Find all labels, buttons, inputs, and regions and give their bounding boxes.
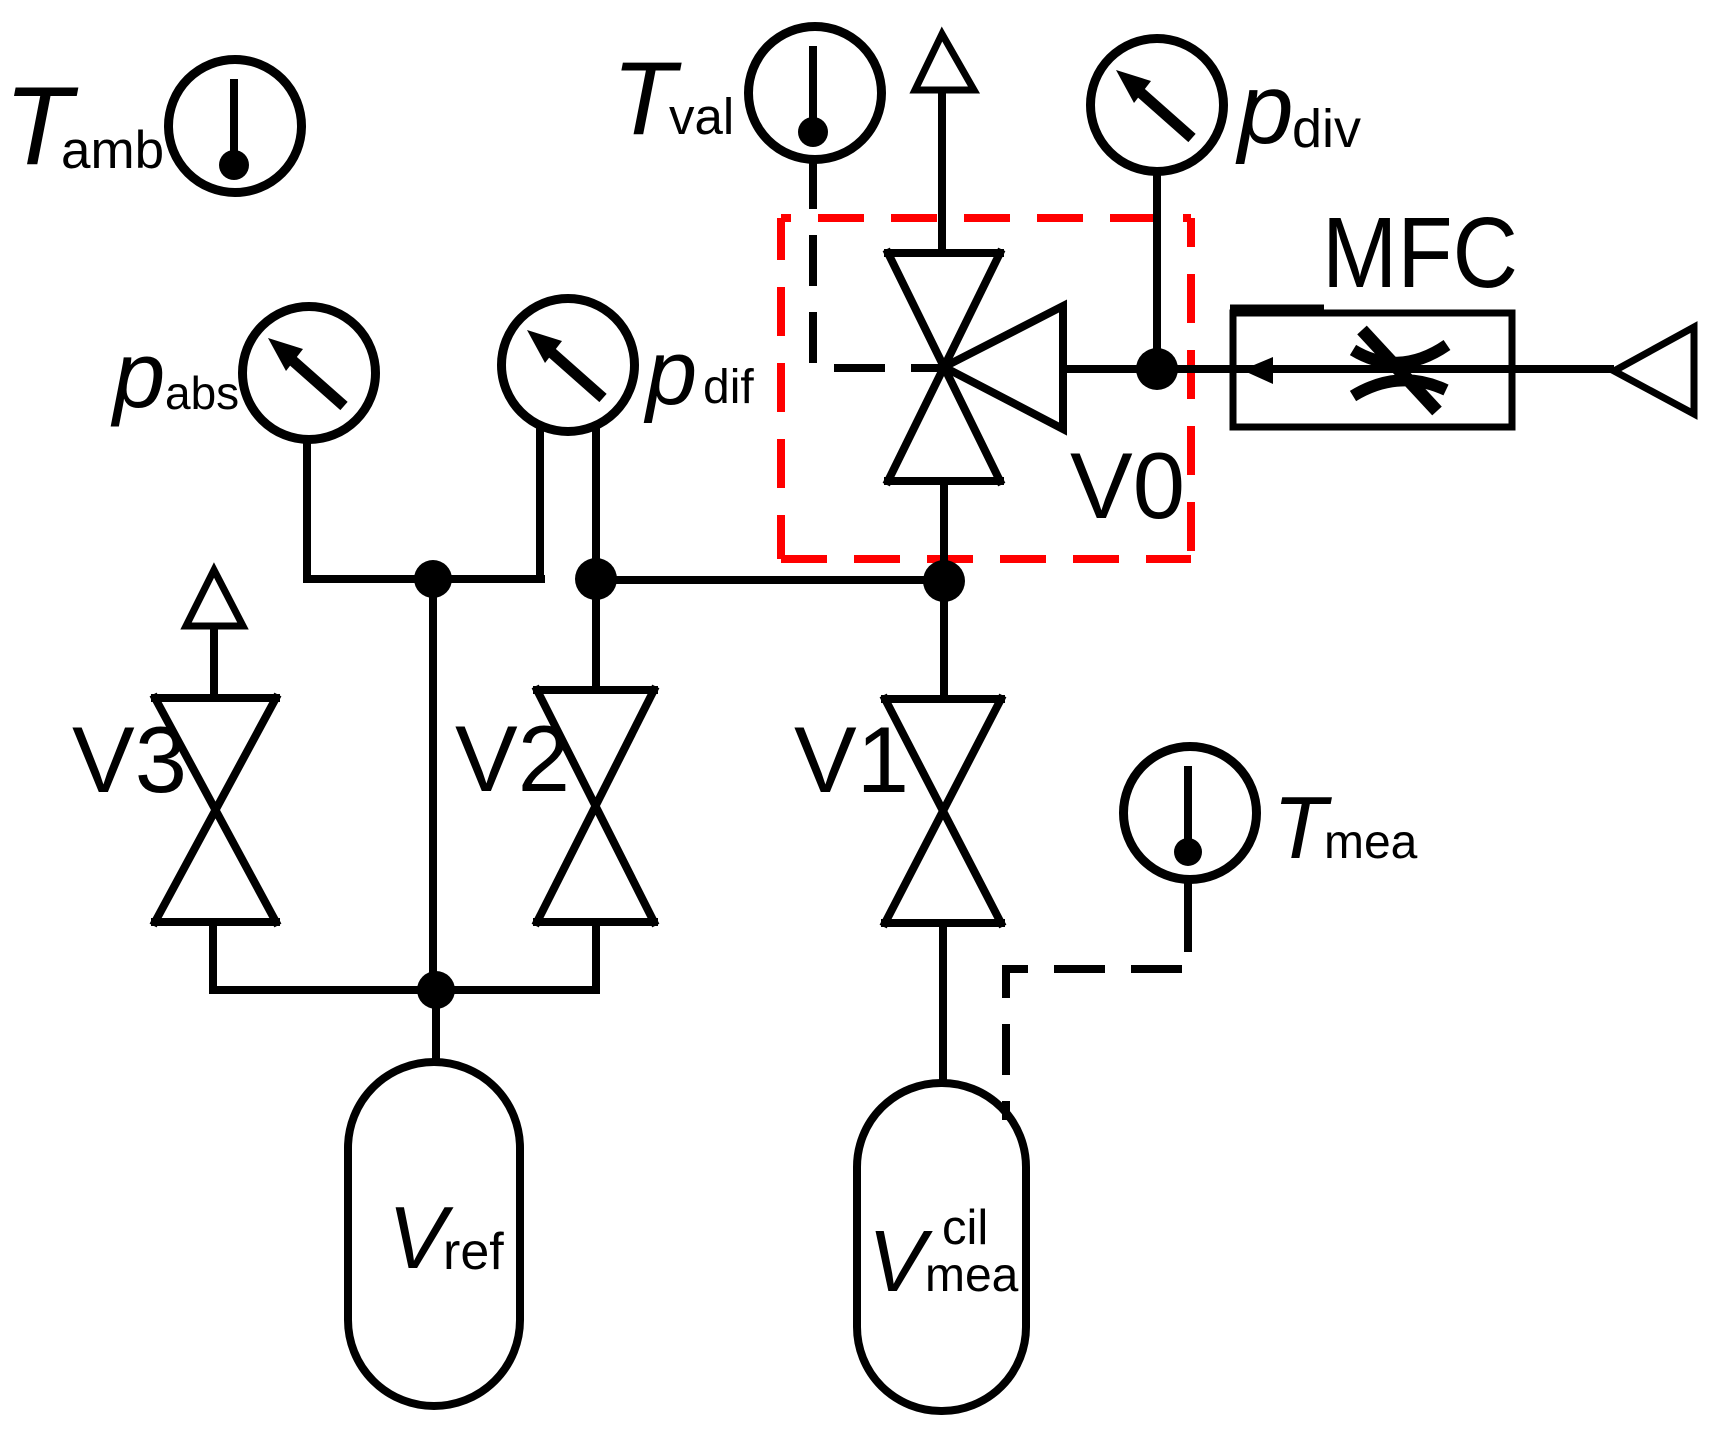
svg-text:dif: dif — [703, 361, 754, 414]
gauge p_div — [1091, 39, 1224, 172]
vent arrow above V0 — [915, 34, 974, 90]
svg-text:p: p — [1235, 53, 1294, 165]
wire: bus from p_dif node to V1 node — [596, 576, 944, 584]
wire: stub to V_ref — [432, 990, 440, 1062]
wire: lower bus — [209, 986, 600, 994]
gas inlet triangle — [1614, 327, 1694, 414]
wire: vent stem V3 — [210, 626, 218, 698]
svg-text:V: V — [868, 1213, 933, 1310]
vessel V_mea — [857, 1083, 1026, 1411]
valve V3 — [155, 698, 276, 922]
svg-text:val: val — [669, 88, 734, 145]
MFC box — [1233, 313, 1512, 427]
wire: vent stem V0 — [938, 90, 946, 253]
svg-text:V1: V1 — [794, 707, 909, 812]
label p_div — [1235, 53, 1361, 165]
gauge T_val — [749, 27, 882, 160]
red dashed enclosure box V0 — [781, 218, 1191, 559]
node p_dif/V2 — [575, 558, 617, 600]
svg-text:p: p — [110, 322, 165, 427]
label T_mea — [1273, 778, 1418, 877]
gauge T_amb — [169, 60, 302, 193]
svg-text:MFC: MFC — [1322, 197, 1518, 309]
vent arrow above V3 — [186, 570, 243, 626]
svg-text:V3: V3 — [72, 707, 187, 812]
valve V2 — [537, 690, 654, 922]
wire: p_dif right stub down to V2 — [592, 424, 600, 690]
label V_mea^cil — [868, 1201, 1019, 1310]
svg-text:mea: mea — [925, 1249, 1019, 1302]
wire: V1 bottom to V_mea — [939, 923, 947, 1083]
svg-text:V2: V2 — [455, 706, 570, 811]
gauge T_mea — [1124, 747, 1257, 880]
gauge p_abs — [243, 307, 376, 440]
svg-text:p: p — [643, 322, 697, 424]
node at p_div junction — [1136, 348, 1178, 390]
svg-text:V0: V0 — [1070, 433, 1185, 538]
wire: line through MFC to inlet — [1237, 365, 1614, 373]
valve V1 — [885, 699, 1001, 923]
wire: V3 bottom stub — [209, 922, 217, 994]
svg-text:abs: abs — [165, 367, 239, 419]
svg-text:cil: cil — [942, 1201, 988, 1255]
label T_amb — [4, 64, 164, 188]
wire: T_mea stub — [1184, 881, 1192, 952]
wire: p_dif left stub — [536, 424, 544, 583]
wire: p_abs stub — [307, 440, 545, 579]
MFC left arrowhead — [1242, 357, 1273, 384]
vessel V_ref — [348, 1062, 520, 1406]
label V_ref — [388, 1188, 504, 1287]
MFC restrictor symbol — [1353, 345, 1447, 396]
wire: down line from left bus node — [429, 579, 437, 990]
label T_val — [612, 41, 734, 157]
label p_dif — [643, 322, 754, 424]
wire: T_mea dashed sense line to Vmea — [1006, 969, 1190, 1120]
node above V_ref — [417, 971, 455, 1009]
node below V0 — [923, 560, 965, 602]
svg-text:div: div — [1292, 99, 1361, 159]
svg-text:ref: ref — [443, 1223, 504, 1281]
wire: V2 bottom stub — [592, 922, 600, 994]
valve V0 (3-way) — [888, 253, 1063, 481]
svg-text:mea: mea — [1324, 816, 1418, 869]
svg-text:amb: amb — [61, 121, 164, 180]
node left bus — [414, 560, 452, 598]
wire: p_div stub — [1153, 173, 1161, 369]
gauge p_dif — [502, 299, 635, 432]
wire: V0 right port to MFC — [1063, 365, 1237, 373]
wire: T_val stub — [809, 161, 817, 209]
wire: T_val dashed sense line to V0 — [813, 209, 944, 368]
wire: V0 bottom to V1 top — [940, 481, 948, 699]
label p_abs — [110, 322, 239, 427]
